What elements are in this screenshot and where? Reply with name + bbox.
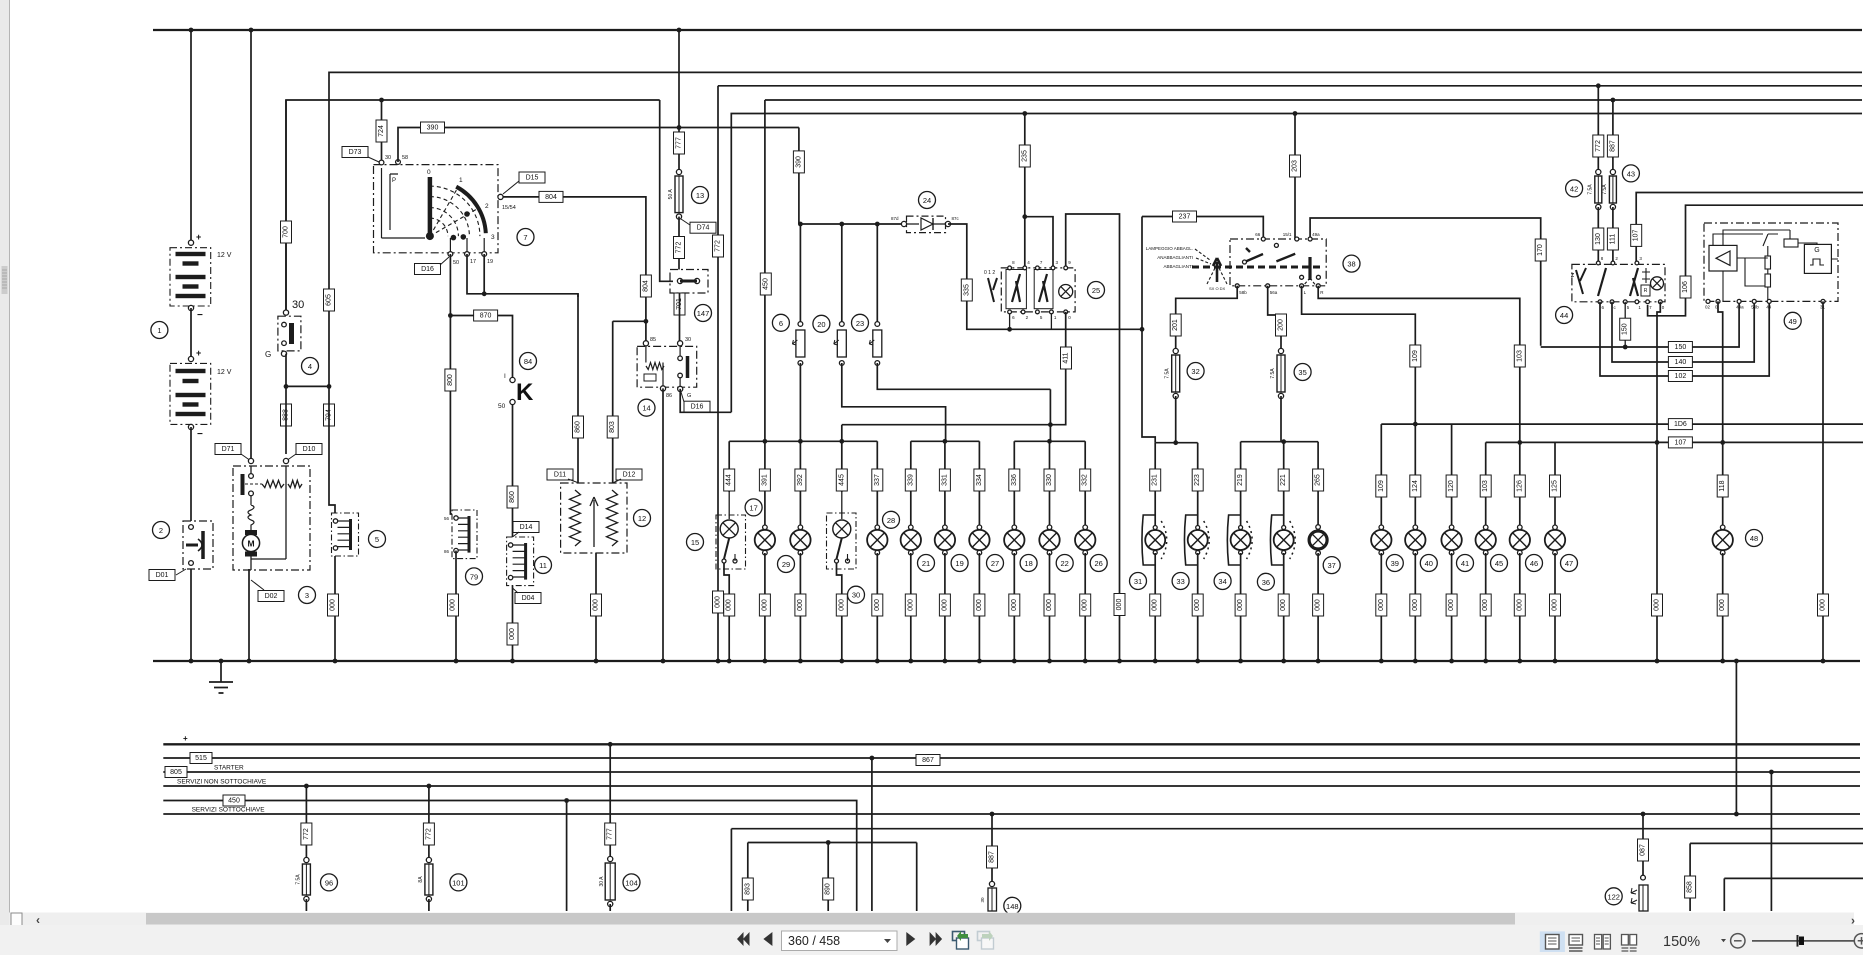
- svg-text:12 V: 12 V: [217, 252, 232, 259]
- wire label 103 mid: [1514, 345, 1525, 367]
- wire label 804 horizontal: [539, 191, 563, 202]
- wire ignition terminal drop 17: [466, 238, 468, 254]
- battery B1 (12 V): [170, 248, 211, 306]
- wire feeder G5: [1241, 441, 1319, 443]
- svg-text:000: 000: [330, 599, 337, 611]
- junction fuse13 wire on L1: [677, 28, 682, 33]
- starter button 84 upper contact: [510, 377, 515, 382]
- wire 106 top line: [1648, 205, 1863, 316]
- viewer horizontal scrollbar thumb: [146, 913, 1515, 925]
- svg-text:000: 000: [941, 599, 948, 611]
- wire 109 from switch 38 L: [1302, 286, 1416, 424]
- wire D04 leader: [513, 588, 519, 593]
- connector label D02: [258, 591, 284, 602]
- svg-text:6: 6: [779, 319, 783, 328]
- wire battery B2 to disconnect switch 2: [190, 427, 192, 521]
- junction 235 branch: [1022, 214, 1027, 219]
- wire 231 lamp to ground bus: [1154, 553, 1156, 661]
- ignition terminal 17: [465, 252, 470, 257]
- junction ground stub: [219, 659, 224, 664]
- wire bus L5 with corner at x=731: [731, 114, 1862, 413]
- junction 231 ground: [1153, 659, 1158, 664]
- wire comp 23 drop: [876, 224, 878, 324]
- wire 58b to fuse 32: [1176, 286, 1238, 351]
- svg-text:30: 30: [852, 591, 860, 600]
- junction 124 ground: [1413, 659, 1418, 664]
- svg-text:13: 13: [696, 191, 704, 200]
- component number 45 (lamp): [1491, 555, 1508, 572]
- svg-text:887: 887: [989, 851, 996, 863]
- svg-text:96: 96: [325, 878, 333, 887]
- svg-text:772: 772: [676, 242, 683, 254]
- wire label 000 under 265: [1313, 594, 1324, 616]
- wire label 000 under 109: [1376, 594, 1387, 616]
- junction 336 ground: [1012, 659, 1017, 664]
- switch 38 bottom pin 56a: [1266, 284, 1270, 288]
- svg-text:I: I: [504, 373, 506, 380]
- wire label 336: [1009, 469, 1020, 491]
- svg-text:56a: 56a: [1270, 290, 1278, 295]
- svg-text:7.5A: 7.5A: [295, 874, 301, 885]
- wire 445 drop from 411 line: [841, 425, 843, 492]
- wire label 331: [939, 469, 950, 491]
- wire 124 lamp drop: [1414, 424, 1416, 527]
- ignition switch 7 box: [374, 165, 499, 253]
- wire 126 lamp drop: [1519, 442, 1521, 527]
- wire ground bus to S6 link: [1735, 661, 1737, 814]
- switch 25 top pin 3: [1051, 266, 1055, 270]
- wire fuse 13 to contact 147: [678, 217, 680, 270]
- svg-text:44: 44: [1560, 311, 1568, 320]
- wire label 000 under 330: [1044, 594, 1055, 616]
- wire 107 feeder line: [1486, 441, 1863, 443]
- svg-text:107: 107: [1633, 229, 1640, 241]
- svg-text:000: 000: [976, 599, 983, 611]
- svg-text:28: 28: [887, 516, 895, 525]
- svg-text:337: 337: [874, 474, 881, 486]
- svg-text:17: 17: [749, 503, 757, 512]
- control unit 49 pin 50b: [1752, 299, 1756, 303]
- svg-text:803: 803: [609, 421, 616, 433]
- wire 337 lamp drop: [876, 441, 878, 527]
- wire label 391: [759, 469, 770, 491]
- svg-text:124: 124: [1412, 480, 1419, 492]
- wire 335 up to switch 25 terminal 1: [1050, 312, 1052, 329]
- switch 30 contact: [835, 538, 850, 563]
- svg-text:107: 107: [1675, 439, 1687, 446]
- svg-text:43: 43: [1627, 169, 1635, 178]
- component number 21 (lamp): [918, 555, 935, 572]
- wire 118 lamp to ground bus: [1722, 553, 1724, 661]
- svg-text:17: 17: [470, 259, 476, 265]
- wire 111 fuse 43 to switch 44: [1612, 207, 1614, 263]
- svg-text:804: 804: [545, 194, 557, 201]
- flasher 20: [834, 322, 847, 366]
- starter motor 3 lower terminal: [249, 491, 254, 496]
- svg-text:331: 331: [941, 474, 948, 486]
- svg-text:12 V: 12 V: [217, 369, 232, 376]
- wire label 000 under 221: [1278, 594, 1289, 616]
- svg-text:724: 724: [378, 125, 385, 137]
- starter motor 3 M armature: [242, 530, 259, 557]
- wire label 000 under 337: [872, 594, 883, 616]
- wire 772 from L3: [717, 86, 719, 661]
- component number 42 (fuse): [1566, 180, 1583, 197]
- component number 101 (fuse): [450, 874, 467, 891]
- wire label 231: [1150, 469, 1161, 491]
- junction 221 ground: [1281, 659, 1286, 664]
- relay 14 box: [637, 346, 697, 387]
- component number 30: [848, 586, 865, 603]
- junction 126 ground: [1517, 659, 1522, 664]
- svg-text:56: 56: [444, 516, 450, 521]
- svg-text:D10: D10: [303, 446, 316, 453]
- ignition dashed arcs: [430, 186, 480, 236]
- toolbar zoom in button: [1854, 934, 1863, 948]
- component number 31 (lamp): [1130, 573, 1147, 590]
- svg-text:19: 19: [955, 559, 963, 568]
- connector 5: [332, 513, 359, 556]
- wire label 000 under 223: [1192, 594, 1203, 616]
- regulator 12 left winding: [570, 490, 581, 546]
- control unit 49 relay coil: [1784, 239, 1798, 247]
- wire comp23 to G3: [877, 363, 1050, 389]
- wire lower line B: [748, 842, 917, 844]
- wire label 000 under 120: [1446, 594, 1457, 616]
- svg-text:235: 235: [1021, 150, 1028, 162]
- component number 47 (lamp): [1561, 555, 1578, 572]
- component number 20: [813, 315, 830, 332]
- component number 22 (lamp): [1056, 555, 1073, 572]
- svg-text:58b: 58b: [1239, 290, 1247, 295]
- hazard switch 44 box: [1572, 264, 1665, 301]
- wire label 000 under 391: [759, 594, 770, 616]
- ignition terminal 15/54: [498, 194, 503, 199]
- component number 38 (dip switch): [1343, 255, 1360, 272]
- svg-text:000: 000: [1516, 599, 1523, 611]
- toolbar page-view icon 3 two-page: [1595, 935, 1611, 950]
- junction sw44 ground: [1655, 659, 1660, 664]
- svg-text:29: 29: [782, 560, 790, 569]
- svg-text:860: 860: [575, 421, 582, 433]
- wire label 000 under 126: [1514, 594, 1525, 616]
- svg-text:−: −: [197, 310, 203, 321]
- svg-text:31: 31: [1134, 577, 1142, 586]
- svg-text:203: 203: [1292, 160, 1299, 172]
- svg-text:P: P: [392, 178, 396, 184]
- toolbar previous-page button: [763, 932, 772, 946]
- svg-text:390: 390: [427, 125, 439, 132]
- wire label 870: [474, 310, 498, 321]
- svg-text:2: 2: [485, 203, 489, 210]
- wire feeder G3: [1014, 440, 1085, 442]
- wire section line S1 (+): [163, 743, 1860, 745]
- junction S6 at 087 drop: [1641, 812, 1646, 817]
- wire 130 fuse 42 to switch 44: [1597, 207, 1599, 263]
- switch 44 bottom pin c: [1610, 300, 1614, 304]
- wire connector 5 to ground bus: [334, 556, 336, 661]
- component number 7 (ignition switch): [517, 229, 534, 246]
- svg-text:84: 84: [524, 357, 532, 366]
- wire 223 lamp drop: [1197, 443, 1199, 527]
- wire label 000 under 103: [1480, 594, 1491, 616]
- junction 391 ground: [763, 659, 768, 664]
- fuse 4 element: [282, 322, 294, 345]
- wire 1142 drop to side lamp feeder: [1142, 217, 1155, 443]
- component number 11 (connector): [535, 557, 552, 574]
- svg-text:24: 24: [923, 196, 931, 205]
- svg-text:804: 804: [642, 280, 649, 292]
- wire label 000 under 231: [1150, 594, 1161, 616]
- svg-text:200: 200: [1278, 319, 1285, 331]
- relay 14 terminal 85: [643, 341, 648, 346]
- junction L1 second feed: [249, 28, 254, 33]
- ignition rotor lever position 0: [428, 177, 433, 238]
- wire label 203: [1290, 155, 1301, 177]
- junction 103 ground: [1483, 659, 1488, 664]
- wire 203 from L5 to switch 38: [1294, 114, 1296, 240]
- wire control unit pin0 to lamp 48: [1718, 301, 1723, 442]
- svg-text:86: 86: [444, 549, 450, 554]
- viewer bottom toolbar background: [0, 925, 1863, 955]
- junction S2 at 867 drop: [870, 756, 875, 761]
- svg-text:109: 109: [1412, 350, 1419, 362]
- wire ground bus: [153, 660, 1860, 662]
- component number 25 (light switch): [1088, 282, 1105, 299]
- junction node 888/605: [284, 384, 289, 389]
- svg-text:49: 49: [1766, 305, 1772, 310]
- svg-text:0: 0: [427, 169, 431, 176]
- wire label 794: [324, 404, 335, 426]
- svg-text:000: 000: [1378, 599, 1385, 611]
- component number 96 (fuse): [321, 874, 338, 891]
- junction lower line B mid: [826, 840, 831, 845]
- svg-text:887: 887: [1609, 140, 1616, 152]
- fuse 32: [1165, 348, 1180, 398]
- svg-text:86: 86: [666, 393, 672, 399]
- toolbar page-view icon 4 two-page scroll: [1622, 935, 1637, 952]
- component number 27 (lamp): [987, 555, 1004, 572]
- svg-text:30: 30: [385, 155, 391, 161]
- wire label 000 under 15: [724, 594, 735, 616]
- switch 15 lamp: [720, 520, 738, 538]
- svg-text:7.5A: 7.5A: [1270, 368, 1276, 379]
- svg-text:411: 411: [1063, 352, 1070, 363]
- junction 125 ground: [1553, 659, 1558, 664]
- junction 392 ground: [798, 659, 803, 664]
- wire label 777 fuse104: [605, 823, 616, 845]
- wire label 888: [281, 404, 292, 426]
- svg-text:335: 335: [963, 284, 970, 296]
- svg-text:STARTER: STARTER: [214, 765, 244, 772]
- switch 38 left lever glyph: [1213, 258, 1221, 282]
- wire label 772 fuse101: [423, 823, 434, 845]
- junction 411 on 1050 wire: [1048, 422, 1053, 427]
- switch 25 outer lever: [988, 278, 997, 302]
- component number 36 (lamp): [1257, 573, 1274, 590]
- switch 44 R box: [1641, 285, 1650, 296]
- wire label 887 fuse148: [987, 846, 998, 868]
- svg-text:103: 103: [1482, 480, 1489, 492]
- voltage regulator 12 box: [561, 483, 627, 553]
- starter motor 3 D10 path: [251, 466, 286, 559]
- switch 25 panel lamp: [1059, 285, 1073, 299]
- wire connector 79 to ground bus: [455, 551, 457, 661]
- wire starter to ground bus: [248, 569, 250, 661]
- wire label 107 top: [1631, 224, 1642, 246]
- svg-text:000: 000: [1482, 599, 1489, 611]
- svg-text:D11: D11: [554, 472, 566, 479]
- svg-text:35: 35: [1298, 368, 1306, 377]
- svg-text:+: +: [196, 348, 201, 358]
- svg-text:605: 605: [326, 294, 333, 306]
- wire label 130: [1593, 228, 1604, 250]
- wire label 102: [1668, 371, 1692, 382]
- switch 38 selector dashed line: [1192, 266, 1320, 269]
- battery B1 top terminal: [188, 240, 193, 245]
- toolbar zoom out button: [1731, 934, 1745, 948]
- switch 44 bottom pin 5: [1623, 300, 1627, 304]
- wire button 84 to connector 11: [512, 405, 514, 537]
- svg-text:49a: 49a: [1312, 232, 1320, 237]
- junction 86 ground: [661, 659, 666, 664]
- svg-text:87d: 87d: [891, 216, 899, 221]
- junction G1 at 764.9: [763, 439, 768, 444]
- junction 109 ground: [1379, 659, 1384, 664]
- wire box 15 to ground: [724, 563, 729, 661]
- component number 19 (lamp): [951, 555, 968, 572]
- svg-text:7.5A: 7.5A: [1587, 184, 1593, 195]
- component number 37 (lamp): [1323, 557, 1340, 574]
- lamp 26: [1075, 525, 1095, 555]
- switch 38 lever 1: [1245, 248, 1264, 262]
- wire 390 vertical: [798, 128, 800, 225]
- svg-text:000: 000: [593, 599, 600, 611]
- component number 2 (battery switch): [153, 522, 170, 539]
- relay 14 contact bar: [686, 356, 690, 378]
- wire regulator 12 to ground bus: [595, 553, 597, 661]
- junction flasher feed at 390: [798, 222, 803, 227]
- wire 330 lamp drop: [1049, 441, 1051, 527]
- svg-text:170: 170: [1537, 244, 1544, 256]
- thermal contact 147: [677, 278, 699, 283]
- battery B2 top terminal: [188, 356, 193, 361]
- junction 332 ground: [1083, 659, 1088, 664]
- wire label 150: [1668, 342, 1692, 353]
- fuse 104 (30 A): [599, 856, 615, 906]
- svg-text:223: 223: [1194, 474, 1201, 486]
- starter motor 3 solenoid coil: [248, 496, 254, 530]
- svg-text:‹: ‹: [36, 913, 40, 927]
- wire 106 feeder line: [1381, 423, 1863, 425]
- wire 804 from ignition 15/54: [503, 197, 646, 343]
- wire bus L2 with corner at x=329: [329, 72, 1862, 386]
- wire label 605: [324, 289, 335, 311]
- svg-text:40: 40: [1425, 559, 1433, 568]
- wire 392 lamp to ground bus: [799, 553, 801, 661]
- svg-text:122: 122: [1607, 892, 1620, 901]
- svg-text:104: 104: [625, 878, 638, 887]
- wire label 890: [823, 878, 834, 900]
- svg-text:50b: 50b: [1751, 305, 1759, 310]
- switch 25 sub box left: [1006, 270, 1026, 309]
- svg-text:48: 48: [1750, 534, 1758, 543]
- wire label 445: [836, 469, 847, 491]
- wire label 103: [1480, 475, 1491, 497]
- wire 339 lamp drop: [910, 441, 912, 527]
- toolbar first-page button: [737, 932, 750, 946]
- svg-text:G: G: [1814, 247, 1819, 254]
- svg-text:700: 700: [283, 226, 290, 238]
- component number 29 (lamp): [778, 556, 795, 573]
- connector label D01: [149, 570, 175, 581]
- wire label 893: [742, 878, 753, 900]
- control unit 49 pin 02: [1706, 299, 1710, 303]
- component number 17: [745, 499, 762, 516]
- wire switch 2 to ground bus: [190, 569, 192, 661]
- relay 14 coil lead: [646, 346, 663, 386]
- junction S5 drop: [564, 798, 569, 803]
- junction G3 mid: [1047, 439, 1052, 444]
- junction flasher feed at 23: [875, 222, 880, 227]
- svg-text:5: 5: [375, 535, 379, 544]
- ignition contact dot b: [451, 235, 457, 241]
- connector label D15: [519, 172, 545, 183]
- wire 331 lamp to ground bus: [944, 553, 946, 661]
- component number 44 (hazard switch): [1556, 307, 1573, 324]
- wire main supply bus L1: [153, 29, 1862, 31]
- wire 125 lamp drop: [1554, 442, 1556, 527]
- wire tail light feed vertical: [1049, 389, 1051, 441]
- wire label 000 under 339: [905, 594, 916, 616]
- wire label 700: [281, 221, 292, 243]
- wire lower line B mid drop: [827, 843, 829, 912]
- wire label 111: [1607, 228, 1618, 250]
- svg-text:D16: D16: [421, 266, 434, 273]
- wire label 087: [1638, 839, 1649, 861]
- svg-text:K: K: [516, 379, 534, 406]
- relay 14 terminal 86: [660, 386, 665, 391]
- wire flasher feed line: [799, 223, 904, 225]
- svg-text:118: 118: [1719, 480, 1726, 491]
- wire D11 leader: [568, 479, 579, 483]
- wire label 000 under 124: [1410, 594, 1421, 616]
- wire label 450 vertical: [760, 273, 771, 295]
- component number 33 (lamp): [1172, 573, 1189, 590]
- wire ignition 17 merge: [467, 254, 484, 294]
- regulator 12 armature arrow: [590, 497, 598, 547]
- viewer scrollbar left page icon: [11, 913, 22, 926]
- svg-text:000: 000: [838, 599, 845, 611]
- wire feeder G1: [729, 440, 877, 442]
- svg-text:14: 14: [642, 404, 650, 413]
- svg-text:000: 000: [1152, 599, 1159, 611]
- component number 32 (fuse): [1187, 363, 1204, 380]
- svg-text:390: 390: [795, 156, 802, 168]
- toolbar next-view icon (disabled): [978, 931, 994, 949]
- fuse 4 box: [278, 316, 301, 351]
- wire fuse 101 drop: [428, 786, 430, 860]
- wire 147 feed from L4: [660, 100, 673, 281]
- component number 13 (fuse): [692, 187, 709, 204]
- wire fuse 96 drop: [305, 786, 307, 860]
- wire label 223: [1192, 469, 1203, 491]
- junction S4 fuse 96: [304, 784, 309, 789]
- wire 870 branch to button 84: [450, 316, 512, 378]
- component number 34 (lamp): [1214, 573, 1231, 590]
- wire label 335: [961, 279, 972, 301]
- junction 870 on 800 wire: [448, 313, 453, 318]
